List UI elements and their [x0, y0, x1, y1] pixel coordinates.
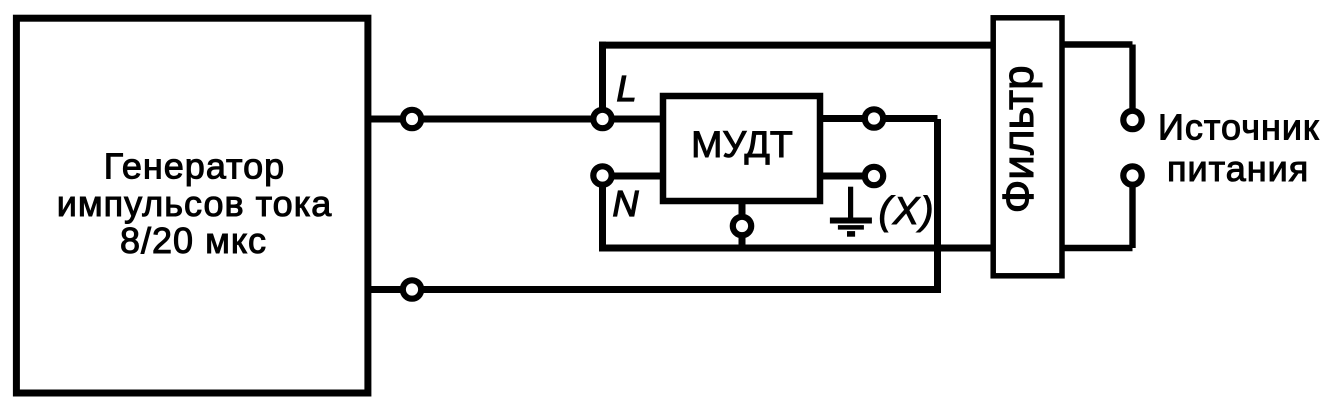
svg-text:L: L	[617, 68, 637, 109]
svg-text:МУДТ: МУДТ	[691, 123, 793, 165]
svg-text:Фильтр: Фильтр	[994, 65, 1043, 213]
svg-text:(X): (X)	[879, 190, 936, 233]
svg-text:импульсов тока: импульсов тока	[57, 183, 333, 224]
svg-text:N: N	[613, 183, 640, 224]
svg-text:питания: питания	[1167, 148, 1309, 189]
svg-text:Генератор: Генератор	[104, 145, 285, 186]
svg-text:8/20 мкс: 8/20 мкс	[120, 220, 267, 261]
svg-text:Источник: Источник	[1158, 107, 1320, 148]
